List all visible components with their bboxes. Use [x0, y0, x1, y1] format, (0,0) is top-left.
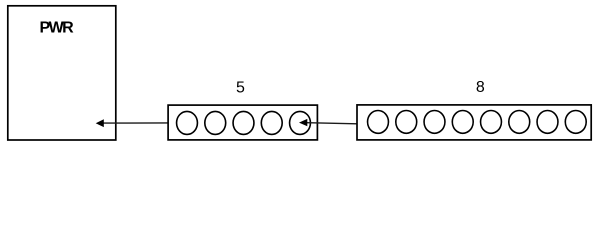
pin 5 of J1 — [290, 111, 311, 134]
pin 1 of J1 — [177, 111, 198, 134]
pin 3 of J2 — [424, 111, 445, 134]
svg-text:5: 5 — [236, 80, 245, 97]
pin 8 of J2 — [565, 111, 586, 134]
connector block J1 (5-pin) — [168, 105, 317, 140]
pin 4 of J2 — [452, 111, 473, 134]
svg-text:8: 8 — [476, 79, 485, 96]
pin 6 of J2 — [509, 111, 530, 134]
wire: arrow from 5-pin connector J1 to PWR box — [96, 119, 168, 127]
pin 7 of J2 — [537, 111, 558, 134]
power supply box PWR — [8, 6, 116, 140]
wire: arrow from 8-pin connector J2 to pin 5 of J1 — [299, 119, 357, 126]
pin 3 of J1 — [233, 111, 254, 134]
pin 5 of J2 — [481, 111, 502, 134]
svg-text:PWR: PWR — [40, 19, 75, 36]
pin 2 of J2 — [396, 111, 417, 134]
connector block J2 (8-pin) — [357, 105, 591, 140]
pin 4 of J1 — [261, 111, 282, 134]
pin 2 of J1 — [205, 111, 226, 134]
pin 1 of J2 — [368, 111, 389, 134]
